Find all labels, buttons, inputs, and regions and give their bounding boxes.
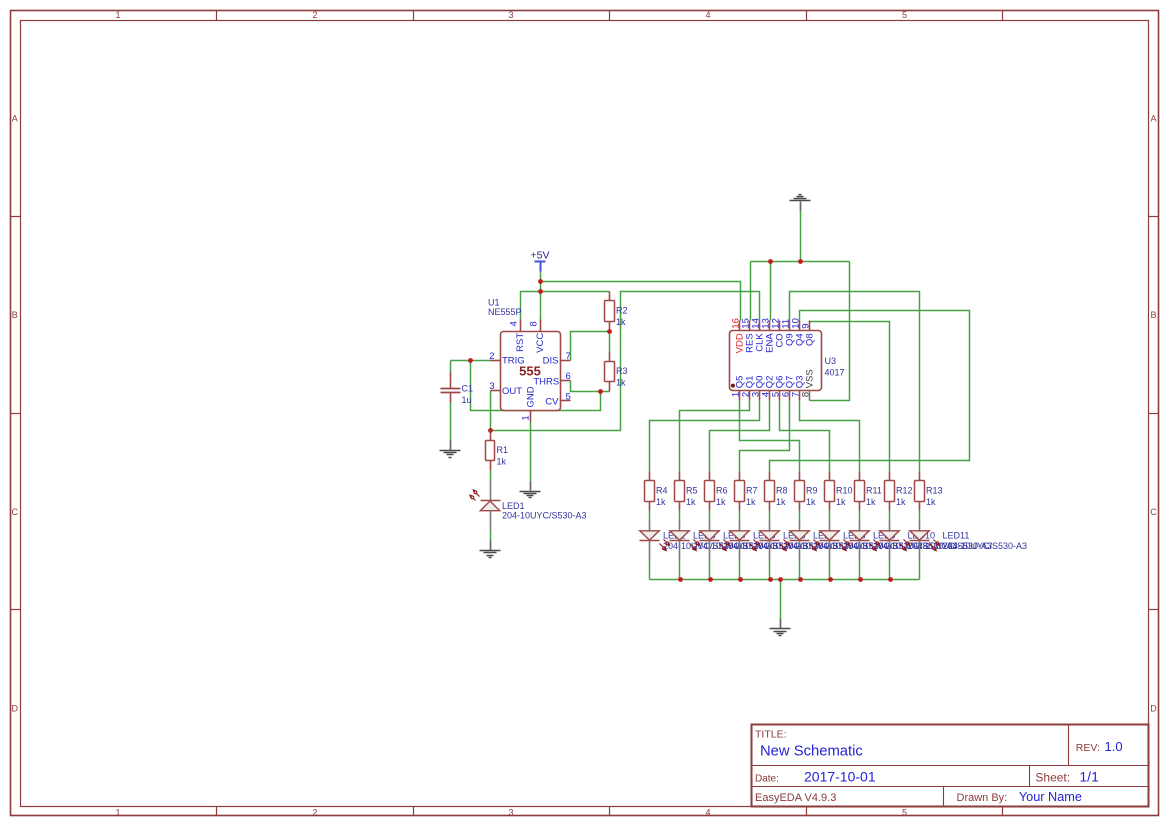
svg-text:R11: R11 <box>866 486 882 496</box>
svg-text:204-10UYC/S530-A3: 204-10UYC/S530-A3 <box>943 541 1028 551</box>
svg-text:9: 9 <box>800 323 811 328</box>
svg-text:D: D <box>12 703 19 713</box>
svg-text:8: 8 <box>529 321 540 326</box>
svg-text:C: C <box>1150 507 1157 517</box>
svg-text:LED1: LED1 <box>502 501 525 511</box>
svg-text:3: 3 <box>508 808 513 818</box>
svg-text:R6: R6 <box>716 486 728 496</box>
svg-text:DIS: DIS <box>543 355 559 366</box>
svg-text:R13: R13 <box>926 486 943 496</box>
svg-text:1.0: 1.0 <box>1105 739 1123 754</box>
svg-text:5: 5 <box>902 808 907 818</box>
svg-text:VSS: VSS <box>805 369 816 388</box>
svg-text:1k: 1k <box>866 497 876 507</box>
svg-text:2: 2 <box>489 351 494 362</box>
svg-text:RST: RST <box>515 333 526 352</box>
svg-text:LED11: LED11 <box>943 531 970 541</box>
svg-text:TITLE:: TITLE: <box>755 729 787 741</box>
svg-text:Date:: Date: <box>755 773 779 784</box>
svg-text:R1: R1 <box>497 445 509 455</box>
svg-text:Sheet:: Sheet: <box>1035 770 1070 784</box>
svg-text:REV:: REV: <box>1076 742 1100 754</box>
svg-text:B: B <box>1150 310 1156 320</box>
svg-text:1k: 1k <box>806 497 816 507</box>
svg-text:OUT: OUT <box>502 386 522 397</box>
svg-text:R8: R8 <box>776 486 788 496</box>
svg-text:1k: 1k <box>656 497 666 507</box>
svg-text:3: 3 <box>489 381 494 392</box>
svg-text:R4: R4 <box>656 486 668 496</box>
svg-text:1k: 1k <box>776 497 786 507</box>
svg-text:R7: R7 <box>746 486 758 496</box>
svg-text:R3: R3 <box>616 366 628 376</box>
svg-text:5: 5 <box>902 10 907 20</box>
svg-text:8: 8 <box>800 392 811 397</box>
svg-text:1k: 1k <box>686 497 696 507</box>
svg-text:Q8: Q8 <box>805 333 816 346</box>
svg-text:R10: R10 <box>836 486 853 496</box>
svg-text:1k: 1k <box>497 457 507 467</box>
svg-text:A: A <box>12 114 18 124</box>
svg-text:1k: 1k <box>616 378 626 388</box>
svg-text:+5V: +5V <box>531 250 550 262</box>
svg-text:1: 1 <box>115 808 120 818</box>
svg-text:4: 4 <box>509 321 520 326</box>
svg-text:7: 7 <box>566 351 571 362</box>
svg-text:R12: R12 <box>896 486 913 496</box>
svg-text:U1: U1 <box>488 298 500 308</box>
svg-text:R9: R9 <box>806 486 818 496</box>
svg-text:GND: GND <box>526 386 537 407</box>
svg-text:NE555P: NE555P <box>488 307 522 317</box>
svg-text:C: C <box>12 507 19 517</box>
svg-text:5: 5 <box>566 391 571 402</box>
svg-text:1/1: 1/1 <box>1079 769 1099 785</box>
svg-text:R2: R2 <box>616 306 628 316</box>
svg-text:D: D <box>1150 703 1157 713</box>
svg-text:CV: CV <box>545 396 559 407</box>
svg-text:2: 2 <box>312 10 317 20</box>
svg-text:555: 555 <box>519 364 541 379</box>
svg-text:C1: C1 <box>462 384 474 394</box>
svg-text:6: 6 <box>566 371 571 382</box>
svg-text:1k: 1k <box>836 497 846 507</box>
svg-text:1: 1 <box>115 10 120 20</box>
svg-text:204-10UYC/S530-A3: 204-10UYC/S530-A3 <box>502 511 587 521</box>
svg-text:1k: 1k <box>896 497 906 507</box>
svg-text:Drawn By:: Drawn By: <box>957 792 1008 804</box>
svg-text:U3: U3 <box>825 356 837 366</box>
svg-text:New Schematic: New Schematic <box>760 744 863 760</box>
svg-text:VCC: VCC <box>535 333 546 353</box>
svg-text:2017-10-01: 2017-10-01 <box>804 769 876 785</box>
svg-text:A: A <box>1150 114 1156 124</box>
svg-text:1: 1 <box>520 415 531 420</box>
svg-text:1k: 1k <box>616 317 626 327</box>
svg-text:4: 4 <box>705 808 710 818</box>
svg-text:1k: 1k <box>746 497 756 507</box>
svg-text:EasyEDA V4.9.3: EasyEDA V4.9.3 <box>755 792 836 804</box>
svg-text:1u: 1u <box>462 395 472 405</box>
svg-text:3: 3 <box>508 10 513 20</box>
svg-text:4: 4 <box>705 10 710 20</box>
svg-text:Your Name: Your Name <box>1019 790 1082 804</box>
svg-text:1k: 1k <box>716 497 726 507</box>
svg-text:1k: 1k <box>926 497 936 507</box>
svg-text:B: B <box>12 310 18 320</box>
svg-text:2: 2 <box>312 808 317 818</box>
svg-text:R5: R5 <box>686 486 698 496</box>
svg-text:4017: 4017 <box>825 368 845 378</box>
